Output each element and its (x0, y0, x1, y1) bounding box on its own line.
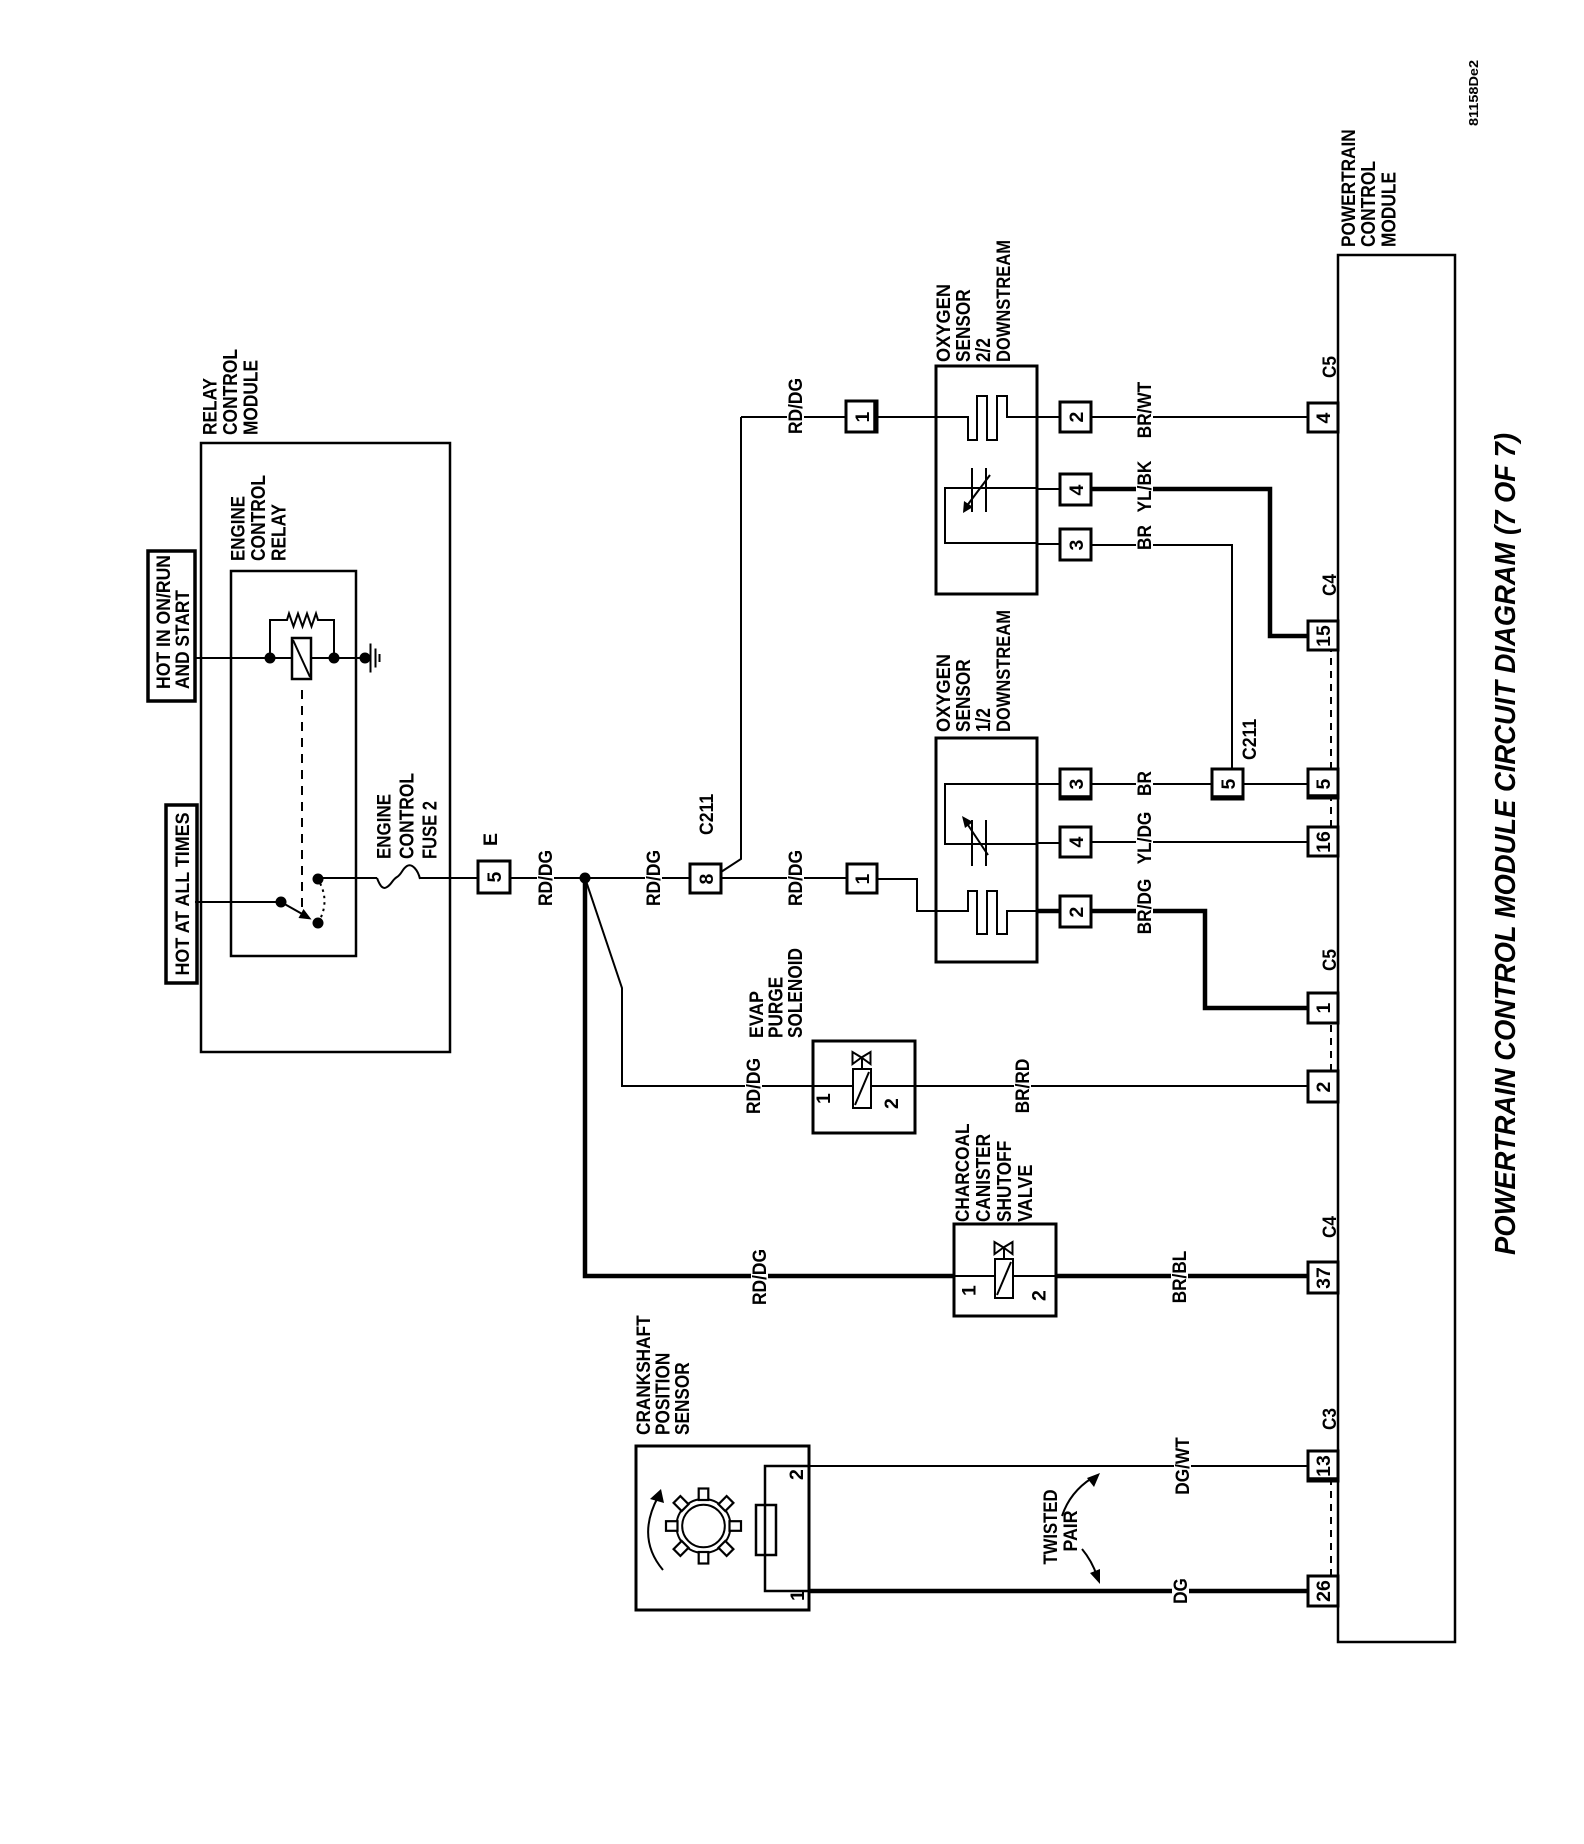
svg-text:C211: C211 (1239, 719, 1261, 760)
connector E pin 5 box (478, 861, 510, 893)
crankshaft rotation arrow (648, 1489, 664, 1570)
svg-text:2: 2 (881, 1098, 903, 1109)
node switch throw (313, 918, 324, 929)
node main junction (580, 873, 591, 884)
svg-text:RD/DG: RD/DG (535, 850, 557, 906)
svg-text:2: 2 (1029, 1290, 1051, 1301)
wire inner box to O2 2/2 pin 4 (1037, 488, 1060, 490)
twisted pair arrow to DG (1082, 1549, 1100, 1584)
twisted pair arrow to DG/WT (1062, 1473, 1100, 1516)
wire heater to pin 2 (1037, 909, 1060, 914)
wire label RD/DG (feed to junction) (535, 846, 557, 908)
O2 2/2 pin 4 connector box (1060, 474, 1091, 505)
evap solenoid coil (853, 1069, 871, 1108)
wire crank pin2 to PCM pin13 (DG/WT) (809, 1465, 1308, 1467)
wire O2 2/2 pin4 to PCM pin15 (YL/BK bold) (1091, 489, 1308, 636)
svg-text:4: 4 (1066, 836, 1088, 847)
crankshaft connector sub-box (765, 1466, 809, 1591)
wire branch from pin8 to O2 2/2 bus (721, 417, 741, 872)
dashed actuation link (301, 690, 303, 908)
node coil top (265, 653, 276, 664)
ground (371, 644, 380, 673)
svg-text:2: 2 (786, 1469, 808, 1480)
O2 2/2 pin 2 connector box (1060, 402, 1091, 432)
svg-text:DG: DG (1170, 1578, 1192, 1604)
wire heater to O2 2/2 pin 2 (1037, 416, 1060, 418)
relay coil K1 (292, 638, 311, 679)
svg-text:RD/DG: RD/DG (743, 1058, 765, 1114)
PCM pin 2 box (1308, 1071, 1338, 1102)
relay control module box (201, 443, 450, 1052)
svg-text:BR/DG: BR/DG (1134, 879, 1156, 935)
powertrain control module box (1338, 255, 1455, 1642)
PCM pin 16 box (1308, 827, 1338, 856)
svg-text:37: 37 (1313, 1267, 1335, 1289)
svg-text:RD/DG: RD/DG (749, 1249, 771, 1305)
O2 1/2 variable cell symbol (962, 816, 988, 866)
O2 2/2 sense element inner box (945, 488, 1037, 543)
svg-text:2: 2 (1066, 906, 1088, 917)
O2 2/2 variable cell symbol (963, 468, 990, 513)
svg-text:POWERTRAIN CONTROL MODULE CIRC: POWERTRAIN CONTROL MODULE CIRCUIT DIAGRA… (1490, 433, 1522, 1255)
svg-text:5: 5 (1313, 778, 1335, 789)
svg-text:1: 1 (813, 1093, 835, 1104)
svg-text:26: 26 (1313, 1580, 1335, 1602)
PCM edge dashes 13-26 (1330, 1481, 1332, 1576)
fuse F2 (engine control fuse 2) (377, 865, 420, 888)
wire junction to C211 pin 8 (585, 877, 690, 879)
svg-text:C211: C211 (696, 794, 718, 835)
wire label RD/DG (bus to O2 2/2) (785, 374, 807, 436)
svg-text:4: 4 (1066, 484, 1088, 495)
PCM edge dashes 1-2 (1330, 1023, 1332, 1071)
evap purge solenoid box (813, 1041, 915, 1133)
svg-text:RD/DG: RD/DG (785, 850, 807, 906)
crankshaft position sensor box (636, 1446, 809, 1610)
svg-text:DG/WT: DG/WT (1172, 1437, 1194, 1494)
wire pin8 to O2 1/2 pin 1 (721, 877, 847, 879)
evap solenoid wire in (813, 1085, 853, 1087)
wire label BR (O2 1/2) (1134, 768, 1156, 799)
wire hot-at feed to switch (195, 901, 281, 903)
PCM pin 1 box (1308, 993, 1338, 1023)
svg-text:RD/DG: RD/DG (643, 850, 665, 906)
wire inner box to O2 2/2 pin 3 (1037, 543, 1060, 545)
wire hot-in feed to coil (195, 657, 292, 659)
svg-text:E: E (480, 833, 502, 846)
O2 1/2 pin 2 connector box (1060, 896, 1091, 927)
wire inner box to pin 4 (1037, 842, 1060, 844)
wire O2 2/2 pin1 into sensor (877, 416, 936, 418)
svg-text:BR: BR (1134, 771, 1156, 796)
PCM pin 4 box (1308, 403, 1338, 432)
wire label YL/DG (1134, 809, 1156, 867)
wire junction diagonal to EVAP feed (585, 878, 813, 1086)
svg-text:BR/RD: BR/RD (1012, 1059, 1034, 1114)
svg-text:C5: C5 (1319, 356, 1341, 378)
svg-text:13: 13 (1313, 1455, 1335, 1477)
svg-text:PAIR: PAIR (1060, 1511, 1082, 1552)
wire label DG (1170, 1575, 1192, 1607)
charcoal canister shutoff valve box (954, 1224, 1056, 1316)
wire label BR (O2 2/2) (1134, 522, 1156, 553)
svg-text:1: 1 (852, 411, 874, 422)
wire label YL/BK (1134, 458, 1156, 515)
wire coil to ground (311, 657, 370, 659)
oxygen sensor 2/2 downstream box (936, 366, 1037, 594)
charcoal valve wire out (thin inside box) (1013, 1275, 1056, 1277)
charcoal valve wire in (thin inside box) (954, 1275, 995, 1277)
node coil bottom (329, 653, 340, 664)
wire label RD/DG (junction to pin8) (643, 846, 665, 908)
svg-text:2: 2 (1313, 1081, 1335, 1092)
switch travel arc (dotted) (318, 880, 325, 924)
wire label RD/DG (pin8 to O2 1/2) (785, 846, 807, 908)
svg-text:C4: C4 (1319, 1216, 1341, 1238)
PCM pin 15 box (1308, 621, 1338, 650)
wire E to junction (510, 877, 585, 879)
svg-text:BR: BR (1134, 525, 1156, 550)
svg-text:HOT AT ALL TIMES: HOT AT ALL TIMES (172, 813, 194, 976)
svg-text:AND START: AND START (172, 590, 194, 689)
hot at all times box (166, 805, 197, 983)
PCM pin 37 box (1308, 1262, 1338, 1293)
wire bus drop to O2 2/2 pin1 (741, 416, 846, 418)
twisted pair label (1040, 1490, 1082, 1565)
svg-text:15: 15 (1313, 625, 1335, 647)
wire label DG/WT (1172, 1433, 1194, 1499)
svg-text:2: 2 (1066, 411, 1088, 422)
wire O2 1/2 pin3 to C211 pin5 (BR) (1091, 783, 1212, 785)
svg-text:TWISTED: TWISTED (1040, 1490, 1062, 1565)
evap valve symbol (853, 1052, 871, 1069)
charcoal valve symbol (995, 1242, 1013, 1259)
PCM pin 26 box (1308, 1576, 1338, 1606)
wire O2 2/2 pin3 to C211 pin5 (BR) (1091, 545, 1232, 769)
O2 1/2 pin 3 connector box (1059, 769, 1092, 799)
charcoal solenoid coil (995, 1259, 1013, 1298)
PCM pin 13 box (1307, 1451, 1339, 1481)
svg-text:3: 3 (1066, 539, 1088, 550)
svg-text:1: 1 (1313, 1002, 1335, 1013)
svg-text:1: 1 (959, 1285, 981, 1296)
O2 1/2 sense element inner box (945, 784, 1037, 844)
svg-text:BR/BL: BR/BL (1169, 1251, 1191, 1304)
wire junction to charcoal valve (bold) (585, 878, 954, 1276)
node ground junction (360, 653, 371, 664)
wire O2 1/2 pin4 to PCM pin16 (YL/DG) (1091, 841, 1308, 843)
wire fuse to connector E (420, 877, 478, 879)
svg-text:5: 5 (1218, 778, 1240, 789)
C211 pin 5 connector box (1211, 769, 1244, 799)
hot in on/run and start box (148, 551, 195, 701)
PCM edge dashes 5-16 (1330, 798, 1332, 827)
wire O2 2/2 pin2 to PCM pin4 (BR/WT) (1091, 416, 1308, 418)
svg-text:YL/BK: YL/BK (1134, 461, 1156, 513)
wire label RD/DG (charcoal feed) (749, 1244, 771, 1310)
svg-text:5: 5 (484, 871, 506, 882)
svg-text:C4: C4 (1319, 574, 1341, 596)
oxygen sensor 1/2 downstream box (936, 738, 1037, 962)
wire O2 1/2 pin2 to PCM pin1 (BR/DG bold) (1091, 911, 1308, 1008)
wire switch output (317, 877, 377, 879)
svg-text:C3: C3 (1319, 1408, 1341, 1430)
PCM pin 5 box (1307, 769, 1339, 798)
wire label BR/RD (1012, 1054, 1034, 1118)
svg-text:16: 16 (1313, 831, 1335, 853)
O2 2/2 pin 1 connector box (846, 400, 877, 433)
wire charcoal to PCM pin37 (BR/BL bold) (1056, 1274, 1308, 1279)
svg-text:RD/DG: RD/DG (785, 378, 807, 434)
O2 1/2 heater element (936, 891, 1037, 934)
connector C211 pin 8 box (690, 864, 721, 893)
wire label BR/DG (1134, 877, 1156, 936)
wire label BR/WT (1134, 379, 1156, 441)
wire C211 pin5 to PCM pin5 (1243, 783, 1308, 785)
O2 sensor 1/2 pin 1 connector box (847, 864, 877, 893)
wire label BR/BL (1169, 1246, 1191, 1308)
wire pin1 jog into O2 1/2 (877, 879, 936, 911)
wire inner box to pin 3 (1037, 783, 1060, 785)
O2 2/2 heater element (936, 396, 1037, 440)
svg-text:1: 1 (787, 1590, 809, 1601)
crankshaft reluctor bar (756, 1505, 776, 1555)
svg-text:1: 1 (852, 873, 874, 884)
svg-text:4: 4 (1313, 412, 1335, 423)
svg-text:BR/WT: BR/WT (1134, 382, 1156, 438)
PCM edge dashes 15-5 (1330, 650, 1332, 769)
switch arm (281, 902, 312, 920)
node switch common (276, 897, 287, 908)
evap solenoid wire out (871, 1085, 915, 1087)
O2 1/2 pin 4 connector box (1060, 827, 1091, 857)
O2 2/2 pin 3 connector box (1060, 529, 1091, 560)
svg-text:8: 8 (696, 873, 718, 884)
crankshaft gear (666, 1489, 741, 1564)
resistor (coil suppression) (270, 614, 334, 659)
svg-text:81158De2: 81158De2 (1466, 60, 1481, 126)
wire evap to PCM pin2 (BR/RD) (915, 1085, 1308, 1087)
svg-text:3: 3 (1066, 778, 1088, 789)
engine control relay box (231, 571, 356, 956)
svg-text:YL/DG: YL/DG (1134, 812, 1156, 865)
svg-text:C5: C5 (1319, 949, 1341, 971)
node switch output contact (313, 874, 324, 885)
wire crank pin1 to PCM pin26 (DG bold) (809, 1589, 1308, 1594)
wire label RD/DG (evap feed) (743, 1053, 765, 1119)
